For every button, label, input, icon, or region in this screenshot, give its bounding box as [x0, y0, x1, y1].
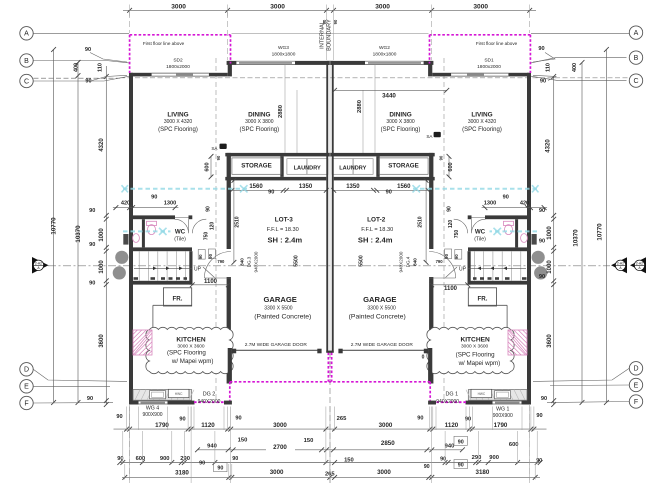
- svg-text:90: 90: [539, 274, 545, 280]
- svg-text:600: 600: [136, 456, 146, 462]
- magenta first floor line box: [130, 34, 231, 36]
- window SD2 glazing lines: [451, 72, 508, 74]
- svg-text:90: 90: [217, 466, 223, 472]
- kitchen sink: [495, 391, 511, 399]
- dim 3440 right: [335, 89, 447, 91]
- svg-text:90: 90: [199, 460, 205, 466]
- wc door swing: [472, 219, 486, 233]
- svg-text:C: C: [24, 78, 29, 85]
- top wall east segment: [327, 61, 366, 65]
- wc toilet pink: [147, 221, 157, 225]
- svg-text:1000: 1000: [547, 226, 553, 240]
- svg-text:90: 90: [447, 206, 453, 212]
- svg-text:150: 150: [238, 437, 248, 443]
- svg-text:1560: 1560: [249, 184, 263, 190]
- svg-text:90: 90: [208, 253, 213, 258]
- svg-text:LAUNDRY: LAUNDRY: [294, 165, 321, 171]
- svg-text:5500: 5500: [294, 255, 300, 267]
- svg-text:3000: 3000: [377, 469, 391, 476]
- svg-text:B: B: [634, 55, 639, 62]
- svg-text:2880: 2880: [357, 100, 363, 113]
- svg-text:WG 4: WG 4: [146, 406, 159, 412]
- magenta door DG2 dashed: [194, 401, 226, 403]
- svg-text:E: E: [24, 384, 29, 391]
- landscape circle 2: [113, 266, 126, 279]
- grid bubble F left: [20, 396, 33, 409]
- svg-text:90: 90: [503, 194, 509, 200]
- svg-text:(Painted Concrete): (Painted Concrete): [349, 314, 406, 321]
- living front wall east segment: [209, 73, 228, 77]
- svg-text:400: 400: [572, 63, 578, 72]
- bottom wall east segment: [428, 401, 436, 405]
- stair nosing marks: [134, 277, 139, 280]
- garage door head line: [232, 349, 322, 351]
- svg-text:HWC: HWC: [478, 392, 486, 396]
- svg-text:420: 420: [121, 201, 130, 207]
- svg-text:1120: 1120: [445, 422, 459, 429]
- cyan highlight line wc: [490, 230, 538, 232]
- exterior wall left: [527, 73, 531, 405]
- svg-text:3000: 3000: [270, 3, 285, 10]
- svg-text:2-A2: 2-A2: [636, 261, 643, 265]
- svg-text:GARAGE: GARAGE: [264, 295, 297, 304]
- svg-text:1790: 1790: [494, 422, 508, 429]
- svg-text:B: B: [24, 58, 29, 65]
- svg-text:400: 400: [74, 63, 80, 72]
- front wall jog: [228, 61, 232, 77]
- window WG4 glazing: [139, 400, 168, 402]
- svg-text:90: 90: [458, 463, 464, 469]
- wc basin pink: [133, 234, 140, 243]
- laundry tub: [353, 159, 373, 175]
- bottom wall mid segment: [168, 401, 195, 405]
- svg-text:3000 X 3600: 3000 X 3600: [461, 343, 489, 349]
- exterior wall left: [129, 73, 133, 405]
- bottom wall mid segment: [466, 401, 493, 405]
- svg-text:2510: 2510: [235, 216, 241, 227]
- stair up arrow: [467, 267, 526, 269]
- top wall east segment: [295, 61, 334, 65]
- section marker left: [32, 257, 49, 274]
- bottom wall west segment: [522, 401, 532, 405]
- svg-text:WG 1: WG 1: [496, 407, 509, 413]
- bottom row3 line: [120, 462, 540, 464]
- svg-text:(SPC Flooring): (SPC Flooring): [462, 127, 502, 133]
- svg-text:600: 600: [448, 162, 454, 171]
- kitchen bench: [133, 390, 192, 401]
- svg-text:1300: 1300: [484, 201, 496, 207]
- svg-text:90: 90: [235, 416, 241, 422]
- svg-text:940X2000: 940X2000: [399, 251, 404, 272]
- svg-text:90: 90: [151, 194, 157, 200]
- svg-text:DINING: DINING: [389, 112, 411, 119]
- svg-text:3000: 3000: [375, 3, 390, 10]
- svg-text:3180: 3180: [175, 469, 189, 476]
- grid vertical 1 dashed: [129, 12, 131, 33]
- interior partition line right dining-living: [362, 90, 364, 153]
- section cut line A-A dashed: [48, 265, 610, 267]
- svg-text:10370: 10370: [75, 225, 82, 243]
- left 400-110 cluster: [76, 60, 81, 65]
- svg-text:90: 90: [89, 242, 95, 248]
- svg-text:900X900: 900X900: [493, 413, 513, 419]
- svg-text:110: 110: [98, 63, 104, 72]
- left unit geometry: [113, 35, 334, 405]
- svg-text:SA: SA: [211, 146, 218, 151]
- laundry tub: [287, 159, 307, 175]
- projection line x=444 dashed: [443, 58, 445, 400]
- svg-text:D: D: [24, 367, 29, 374]
- wc top wall: [485, 215, 531, 219]
- svg-text:STORAGE: STORAGE: [388, 163, 418, 170]
- kitchen pantry lines: [153, 304, 192, 306]
- svg-text:3000 X 4320: 3000 X 4320: [164, 119, 193, 125]
- svg-text:1120: 1120: [201, 422, 215, 429]
- dim 2880 line: [374, 65, 376, 153]
- meter box: [123, 234, 128, 245]
- wc basin pink: [521, 234, 528, 243]
- svg-text:C: C: [633, 78, 638, 85]
- svg-text:150: 150: [344, 458, 354, 464]
- svg-text:3000 X 4320: 3000 X 4320: [468, 119, 497, 125]
- grid bubble E left: [20, 380, 33, 393]
- bottom row2 texts: [266, 442, 295, 451]
- svg-text:1000: 1000: [99, 228, 105, 242]
- grid bubble C right: [629, 74, 642, 87]
- window WG3 glazing lines: [236, 60, 295, 62]
- bottom row2 line: [198, 449, 463, 451]
- svg-text:SD2: SD2: [173, 58, 183, 64]
- svg-text:90: 90: [458, 439, 464, 445]
- fridge FR box: [163, 288, 191, 306]
- svg-text:90: 90: [322, 19, 327, 24]
- svg-text:E: E: [634, 382, 639, 389]
- cyan highlight line upper: [123, 188, 247, 190]
- svg-text:840: 840: [413, 258, 418, 266]
- svg-text:3300 X 5500: 3300 X 5500: [264, 306, 293, 312]
- svg-text:3000: 3000: [379, 422, 393, 429]
- svg-text:LIVING: LIVING: [471, 112, 492, 119]
- svg-text:940: 940: [445, 444, 455, 450]
- svg-text:3000: 3000: [171, 3, 186, 10]
- landscape circle 2: [534, 266, 547, 279]
- svg-text:265: 265: [337, 416, 347, 422]
- svg-text:4320: 4320: [545, 139, 551, 153]
- svg-text:90: 90: [87, 396, 93, 402]
- svg-text:1800x1800: 1800x1800: [373, 52, 397, 58]
- svg-text:(SPC Flooring: (SPC Flooring: [456, 351, 495, 358]
- svg-text:10370: 10370: [572, 229, 579, 247]
- pink hatch square: [508, 330, 527, 355]
- grid bubble C left: [20, 74, 33, 87]
- svg-text:2.7M WIDE GARAGE DOOR: 2.7M WIDE GARAGE DOOR: [245, 342, 308, 348]
- svg-text:KITCHEN: KITCHEN: [460, 336, 490, 343]
- storage shelf outline: [232, 158, 281, 174]
- svg-text:90: 90: [198, 254, 203, 259]
- svg-text:SD1: SD1: [484, 58, 494, 64]
- svg-text:(SPC Flooring): (SPC Flooring): [239, 127, 279, 133]
- svg-text:90: 90: [179, 417, 185, 423]
- garage west wall lower: [227, 277, 231, 384]
- window WG4 glazing: [493, 400, 522, 402]
- landscape circle 1: [115, 251, 128, 264]
- svg-text:940X2000: 940X2000: [198, 399, 221, 405]
- living front wall west segment: [129, 73, 152, 77]
- grid line C dashed horizontal: [34, 77, 121, 79]
- grid vertical 6 dashed: [529, 12, 531, 33]
- kitchen sink: [150, 391, 166, 399]
- svg-text:750: 750: [454, 230, 460, 239]
- dim line 1560-90-1350: [232, 189, 326, 191]
- right inner dim column: [553, 77, 555, 405]
- wc door swing: [175, 219, 189, 233]
- svg-text:2880: 2880: [278, 105, 284, 118]
- left dim 10770: [53, 50, 55, 403]
- stair treads: [520, 251, 522, 281]
- right unit geometry mirrored: [327, 35, 548, 405]
- svg-text:LOT-2: LOT-2: [367, 217, 386, 224]
- svg-text:3180: 3180: [476, 469, 490, 476]
- svg-text:290: 290: [472, 455, 482, 461]
- svg-text:3000 X 3800: 3000 X 3800: [386, 119, 415, 125]
- svg-text:WG2: WG2: [379, 45, 390, 51]
- svg-text:DG 2: DG 2: [203, 391, 216, 397]
- svg-text:(SPC Flooring: (SPC Flooring: [167, 349, 206, 356]
- grid bubble A right: [629, 26, 642, 39]
- svg-text:90: 90: [116, 414, 122, 420]
- garage front jamb wall: [428, 348, 432, 384]
- garage front jamb wall: [228, 348, 232, 384]
- garage door DG3 swing: [429, 252, 456, 279]
- svg-text:(SPC Flooring): (SPC Flooring): [158, 127, 198, 133]
- storage shelf outline: [379, 158, 428, 174]
- stair east wall: [468, 251, 471, 284]
- svg-text:3600: 3600: [99, 334, 105, 348]
- svg-text:90: 90: [386, 189, 392, 195]
- svg-text:3000: 3000: [273, 422, 287, 429]
- kitchen bench: [468, 390, 527, 401]
- living front wall west segment: [508, 73, 531, 77]
- top dimension line: [123, 9, 536, 11]
- svg-text:90: 90: [541, 396, 547, 402]
- svg-text:2510: 2510: [417, 216, 423, 227]
- projection line x=216 dashed: [215, 58, 217, 400]
- svg-text:150: 150: [304, 438, 314, 444]
- svg-text:900: 900: [489, 455, 499, 461]
- svg-text:1800x2000: 1800x2000: [166, 64, 190, 70]
- svg-text:UP: UP: [459, 266, 467, 272]
- svg-text:UP: UP: [194, 266, 202, 272]
- svg-text:1000: 1000: [547, 260, 553, 274]
- storage east wall: [280, 156, 283, 177]
- dim line 2510 vertical: [233, 180, 235, 262]
- dim line 420-90-1300: [482, 207, 547, 209]
- dim line 1100: [432, 284, 468, 286]
- svg-text:SH : 2.4m: SH : 2.4m: [267, 235, 302, 244]
- svg-text:A: A: [24, 31, 29, 38]
- svg-text:WC: WC: [475, 229, 486, 236]
- svg-text:SH : 2.4m: SH : 2.4m: [358, 235, 393, 244]
- front wall jog: [428, 61, 432, 77]
- cyan highlight line upper: [413, 188, 537, 190]
- svg-text:3000 X 3800: 3000 X 3800: [245, 119, 274, 125]
- grid bubble A left: [20, 27, 33, 40]
- svg-text:1350: 1350: [346, 184, 360, 190]
- svg-text:WC: WC: [175, 229, 186, 236]
- kitchen pantry lines: [468, 304, 507, 306]
- left inner dim column: [105, 66, 107, 405]
- magenta ffl line at garage court: [230, 381, 330, 383]
- stair treads: [138, 251, 140, 281]
- bottom row4 line: [122, 476, 540, 478]
- left dim 10370: [77, 63, 79, 403]
- section marker right 1: [611, 257, 627, 273]
- dim line 1100: [192, 284, 228, 286]
- grid line C leader right: [531, 76, 627, 80]
- wc partition: [515, 219, 518, 247]
- kitchen revision cloud: [146, 327, 233, 373]
- svg-text:90: 90: [85, 47, 91, 53]
- svg-text:90: 90: [539, 239, 545, 245]
- svg-text:3600: 3600: [547, 334, 553, 348]
- svg-text:940X2000: 940X2000: [436, 399, 459, 405]
- grid bubble B right: [629, 51, 642, 64]
- svg-text:DG 1: DG 1: [446, 391, 459, 397]
- storage top wall: [327, 153, 435, 157]
- svg-text:KITCHEN: KITCHEN: [176, 336, 206, 343]
- svg-text:790: 790: [436, 259, 444, 264]
- svg-text:90: 90: [268, 189, 274, 195]
- svg-text:110: 110: [546, 63, 552, 72]
- bottom extension lines extra: [138, 407, 140, 431]
- svg-text:90: 90: [216, 155, 221, 160]
- svg-text:DG.3: DG.3: [246, 256, 251, 267]
- svg-text:4320: 4320: [99, 138, 105, 152]
- dim 2880 line: [284, 65, 286, 153]
- laundry machine: [307, 159, 328, 175]
- svg-text:First floor line above: First floor line above: [476, 41, 518, 46]
- garage west wall upper: [227, 153, 231, 249]
- svg-text:A: A: [634, 30, 639, 37]
- smoke alarm SA left: [220, 144, 227, 149]
- party wall centre: [326, 61, 328, 353]
- grid bubble E right: [629, 378, 642, 391]
- bottom wall east segment: [224, 401, 232, 405]
- svg-text:LIVING: LIVING: [167, 112, 188, 119]
- pink hatch square: [133, 330, 152, 355]
- svg-text:750: 750: [203, 232, 209, 241]
- kitchen revision cloud: [427, 327, 514, 373]
- stair nosing marks: [522, 277, 527, 280]
- window WG3 glazing lines: [365, 60, 424, 62]
- svg-text:LAUNDRY: LAUNDRY: [339, 165, 366, 171]
- svg-text:90: 90: [536, 413, 542, 419]
- svg-text:DINING: DINING: [248, 112, 270, 119]
- landscape circle 1: [532, 251, 545, 264]
- dim line 2510 vertical: [425, 180, 427, 262]
- svg-text:900X900: 900X900: [142, 412, 162, 418]
- laundry machine: [332, 159, 353, 175]
- svg-text:2.7M WIDE GARAGE DOOR: 2.7M WIDE GARAGE DOOR: [351, 342, 414, 348]
- svg-text:DG.4: DG.4: [406, 256, 411, 267]
- wc bottom wall: [468, 247, 531, 251]
- svg-text:LOT-3: LOT-3: [275, 217, 294, 224]
- fridge FR box: [468, 288, 496, 306]
- svg-text:First floor line above: First floor line above: [143, 41, 185, 46]
- svg-text:F.F.L = 18.30: F.F.L = 18.30: [267, 227, 299, 233]
- grid bubble B left: [20, 54, 33, 67]
- smoke alarm SA right: [434, 132, 441, 137]
- hw cylinder box: [168, 389, 189, 397]
- svg-text:w/ Mapei wpm): w/ Mapei wpm): [458, 360, 501, 367]
- svg-text:FR.: FR.: [173, 296, 183, 303]
- grid line B leader right: [531, 58, 627, 63]
- dim line 1560-90-1350: [334, 189, 428, 191]
- dim 600 storage: [448, 156, 450, 177]
- magenta first floor line box: [430, 34, 531, 36]
- living front wall east segment: [432, 73, 451, 77]
- wc bottom wall: [129, 247, 192, 251]
- centre line below garages: [329, 352, 331, 483]
- svg-text:420: 420: [520, 201, 529, 207]
- svg-text:90: 90: [85, 78, 91, 84]
- top wall west segment: [424, 61, 434, 65]
- right dim 10770: [605, 50, 607, 403]
- svg-text:90: 90: [540, 79, 546, 85]
- svg-text:(SPC Flooring): (SPC Flooring): [381, 127, 421, 133]
- svg-text:290: 290: [180, 456, 190, 462]
- grid bubble D left: [20, 363, 33, 376]
- garage door head line: [339, 349, 429, 351]
- svg-text:2-A2: 2-A2: [35, 261, 42, 265]
- svg-text:(Tile): (Tile): [474, 236, 486, 242]
- grid bubble D right: [629, 362, 642, 375]
- top wall west segment: [227, 61, 237, 65]
- stair up arrow: [134, 267, 193, 269]
- svg-text:3440: 3440: [382, 93, 396, 100]
- svg-text:F: F: [24, 400, 28, 407]
- svg-text:600: 600: [509, 442, 519, 448]
- svg-text:1800x1800: 1800x1800: [272, 52, 296, 58]
- svg-text:2-A2: 2-A2: [617, 261, 624, 265]
- svg-text:5500: 5500: [359, 255, 365, 267]
- svg-text:940: 940: [207, 443, 217, 449]
- svg-text:90: 90: [333, 19, 338, 24]
- svg-text:10770: 10770: [596, 223, 603, 241]
- hw cylinder box: [471, 389, 492, 397]
- centre extension lines: [326, 17, 328, 61]
- garage west wall lower: [429, 277, 433, 384]
- svg-text:10770: 10770: [51, 217, 58, 235]
- svg-text:90: 90: [417, 416, 423, 422]
- grid vertical 2 dashed: [227, 12, 229, 60]
- svg-text:1300: 1300: [164, 201, 176, 207]
- bottom extension lines: [126, 407, 128, 432]
- svg-text:F.F.L = 18.30: F.F.L = 18.30: [361, 227, 393, 233]
- stair bottom wall: [129, 281, 192, 285]
- storage laundry bottom wall: [334, 177, 435, 181]
- svg-text:2700: 2700: [273, 444, 287, 451]
- dim line 420-90-1300: [113, 207, 178, 209]
- svg-text:90: 90: [232, 456, 238, 462]
- grid vertical 5 dashed: [431, 12, 433, 60]
- grid bubble F right: [629, 395, 642, 408]
- bottom wall west segment: [129, 401, 139, 405]
- magenta door DG2 dashed: [435, 401, 467, 403]
- dim 600 storage: [210, 156, 212, 177]
- svg-text:STORAGE: STORAGE: [241, 163, 271, 170]
- svg-text:1560: 1560: [397, 184, 411, 190]
